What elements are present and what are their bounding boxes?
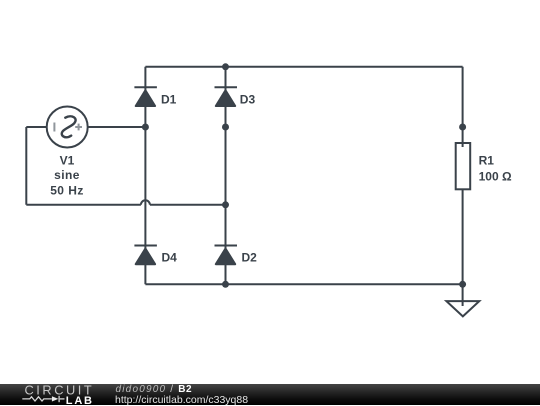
- svg-text:100 Ω: 100 Ω: [479, 169, 512, 183]
- svg-text:V1: V1: [60, 154, 75, 168]
- svg-text:D4: D4: [162, 251, 178, 265]
- svg-text:LAB: LAB: [66, 395, 94, 405]
- svg-text:D2: D2: [242, 251, 258, 265]
- svg-text:R1: R1: [479, 153, 495, 167]
- svg-text:50 Hz: 50 Hz: [50, 183, 84, 197]
- svg-text:sine: sine: [54, 168, 80, 182]
- svg-text:D1: D1: [161, 93, 177, 107]
- svg-text:D3: D3: [240, 93, 256, 107]
